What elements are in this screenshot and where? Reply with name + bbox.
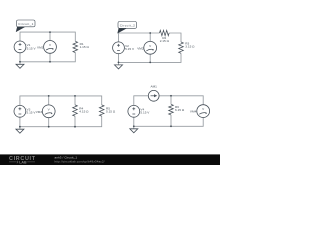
node C3 top VM3 xyxy=(48,95,50,97)
resistor R5 xyxy=(99,105,115,116)
wire bottom C3 xyxy=(20,116,102,127)
svg-text:6.15 Ω: 6.15 Ω xyxy=(175,108,185,112)
CircuitLab logo xyxy=(9,156,36,164)
node C3 bottom R4 xyxy=(74,126,76,128)
node C4 bottom R6 xyxy=(170,125,172,127)
wire bottom C1 xyxy=(20,53,75,62)
wire bottom C2 xyxy=(119,53,182,62)
voltage source V3 xyxy=(14,105,36,117)
resistor R6 xyxy=(169,104,185,115)
callout Circuit_2 xyxy=(117,22,136,34)
voltage source V1 xyxy=(14,41,36,53)
svg-text:5.15 V: 5.15 V xyxy=(140,111,150,115)
callout Circuit_1 xyxy=(16,20,35,32)
node C1 top-mid xyxy=(49,31,51,33)
svg-text:5.15 V: 5.15 V xyxy=(125,47,135,51)
node C4 ground tee xyxy=(133,125,135,127)
svg-text:5.15 Ω: 5.15 Ω xyxy=(106,110,116,114)
voltage source V2 xyxy=(113,42,135,54)
wire top C3 xyxy=(20,96,102,106)
wire VM1 stubs C1 xyxy=(49,32,51,62)
wire R4 stubs C3 xyxy=(74,96,76,127)
wire VM2 stubs C2 xyxy=(149,33,151,62)
svg-text:4.15 Ω: 4.15 Ω xyxy=(79,110,89,114)
ammeter AM1 xyxy=(148,84,159,101)
svg-text:5.15 V: 5.15 V xyxy=(27,46,37,50)
wire bottom C4 xyxy=(134,117,203,126)
ground C4 xyxy=(130,126,138,133)
node C3 ground tee xyxy=(19,126,21,128)
voltmeter VM2 xyxy=(137,41,156,54)
svg-text:VM3: VM3 xyxy=(36,110,43,114)
voltage source V4 xyxy=(128,105,150,117)
resistor R1 xyxy=(73,41,89,52)
svg-text:VM2: VM2 xyxy=(137,46,144,50)
ground C2 xyxy=(115,62,123,69)
node C2 ground tee xyxy=(118,62,120,64)
resistor R2 (horizontal) xyxy=(160,30,170,43)
svg-text:1.15 Ω: 1.15 Ω xyxy=(80,45,90,49)
svg-text:2.15 Ω: 2.15 Ω xyxy=(160,39,170,43)
resistor R4 xyxy=(73,105,89,116)
node C3 top R4 xyxy=(74,95,76,97)
svg-text:http://circuitlab.com/cp/b49z3: http://circuitlab.com/cp/b49z34ac2/ xyxy=(55,159,105,163)
wire VM3 stubs C3 xyxy=(48,96,50,127)
node C2 top-mid xyxy=(149,32,151,34)
wire top C4 xyxy=(134,96,203,106)
node C1 bottom-mid xyxy=(49,61,51,63)
svg-text:VM4: VM4 xyxy=(190,110,197,114)
ground C3 xyxy=(16,127,24,134)
wire R6 stubs C4 xyxy=(170,96,172,127)
svg-text:Circuit_2: Circuit_2 xyxy=(120,23,135,27)
node C1 ground tee xyxy=(19,61,21,63)
voltmeter VM1 xyxy=(37,41,56,54)
svg-text:AM1: AM1 xyxy=(151,84,158,88)
svg-text:LAB: LAB xyxy=(19,161,27,165)
voltmeter VM3 xyxy=(36,105,55,118)
wire top C1 xyxy=(20,32,75,41)
svg-text:3.15 Ω: 3.15 Ω xyxy=(185,45,195,49)
node C3 bottom VM3 xyxy=(48,126,50,128)
node C2 bottom-mid xyxy=(149,62,151,64)
wire top C2 xyxy=(119,33,182,42)
voltmeter VM4 xyxy=(190,105,210,118)
svg-text:VM1: VM1 xyxy=(37,46,44,50)
svg-text:Circuit_1: Circuit_1 xyxy=(18,22,33,26)
ground C1 xyxy=(16,62,24,69)
resistor R3 xyxy=(179,41,195,53)
node C4 top R6 xyxy=(170,95,172,97)
